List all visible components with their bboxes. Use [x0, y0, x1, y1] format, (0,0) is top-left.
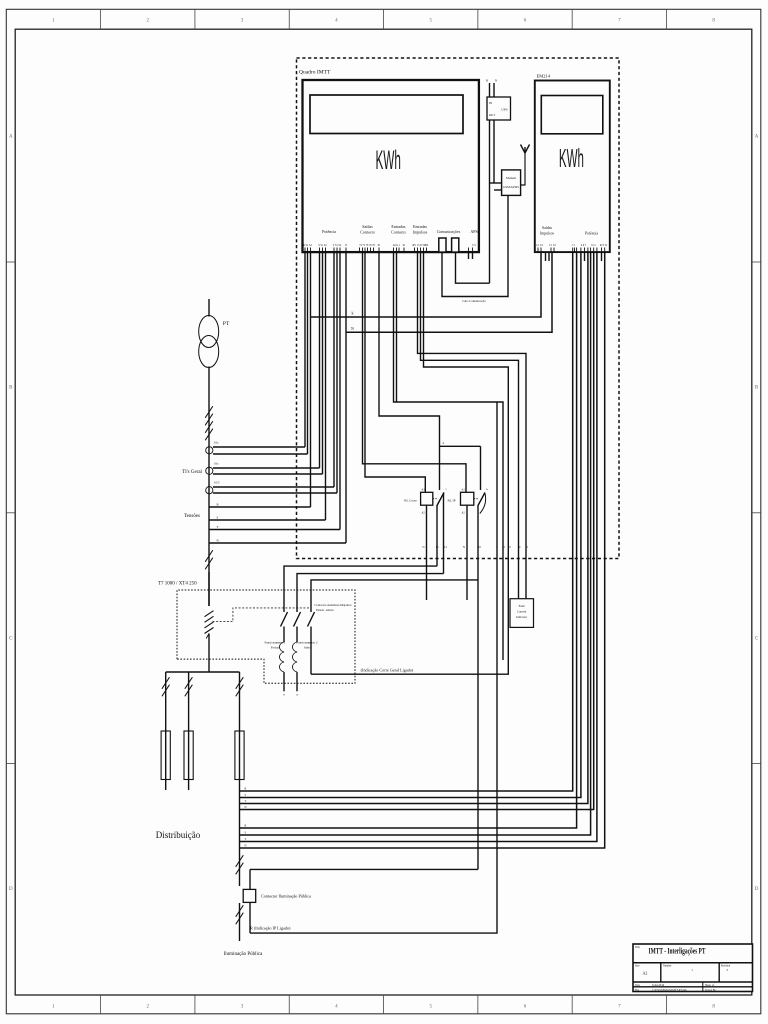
svg-text:R: R: [486, 79, 488, 83]
svg-text:k: k: [352, 311, 354, 316]
svg-text:S: S: [217, 516, 219, 520]
svg-text:A: A: [755, 135, 759, 140]
svg-text:Potência: Potência: [585, 231, 598, 235]
svg-text:R: R: [245, 788, 247, 791]
svg-text:C1 C2: C1 C2: [536, 244, 543, 247]
svg-text:Current: Current: [517, 610, 526, 614]
svg-text:EM214: EM214: [537, 74, 551, 79]
svg-text:Modem: Modem: [506, 176, 516, 180]
svg-text:10a: 10a: [214, 462, 219, 466]
svg-text:Distribuição: Distribuição: [156, 830, 201, 840]
svg-text:Potência: Potência: [322, 229, 336, 234]
svg-text:10a: 10a: [214, 441, 219, 445]
svg-text:(Indicação Corte Geral Ligado): (Indicação Corte Geral Ligado): [361, 668, 414, 673]
svg-text:GSM/GPRS: GSM/GPRS: [503, 185, 519, 189]
svg-text:Contactor Iluminação Pública: Contactor Iluminação Pública: [261, 894, 311, 899]
svg-text:T: T: [245, 800, 247, 803]
svg-text:A: A: [9, 135, 13, 140]
svg-text:A2: A2: [643, 971, 648, 976]
svg-text:Quadro IMTT: Quadro IMTT: [299, 70, 331, 76]
svg-text:T: T: [245, 838, 247, 841]
svg-text:Funcionamento 2: Funcionamento 2: [297, 641, 318, 645]
svg-text:Contacto: Contacto: [360, 230, 374, 235]
svg-text:N: N: [245, 806, 247, 809]
svg-text:Contacto: Contacto: [391, 230, 405, 235]
svg-text:IMTT - Interligações PT: IMTT - Interligações PT: [649, 947, 706, 956]
svg-text:9-Jul-2010: 9-Jul-2010: [652, 984, 665, 987]
svg-text:N: N: [463, 546, 465, 549]
svg-text:Funcionamento 1: Funcionamento 1: [265, 641, 286, 645]
svg-text:T7 1000 / XT4 250: T7 1000 / XT4 250: [158, 582, 197, 587]
svg-text:Cabo Comunicação: Cabo Comunicação: [462, 299, 486, 303]
svg-text:R/T 12: R/T 12: [600, 244, 608, 247]
svg-text:T S1 S2: T S1 S2: [333, 244, 342, 247]
svg-text:N: N: [345, 244, 347, 247]
svg-text:Number: Number: [663, 965, 672, 968]
svg-text:Saídas: Saídas: [362, 224, 373, 229]
svg-text:Iluminação Pública: Iluminação Pública: [224, 952, 264, 957]
svg-text:Fechar: Fechar: [271, 646, 279, 650]
svg-text:Contactos Auxiliares Disjuntor: Contactos Auxiliares Disjuntor: [314, 603, 351, 607]
svg-text:Saídas: Saídas: [542, 226, 552, 230]
svg-text:Impulsos: Impulsos: [540, 231, 554, 235]
svg-text:Sheet of: Sheet of: [705, 984, 714, 987]
svg-text:KWh: KWh: [559, 143, 584, 173]
svg-text:D: D: [755, 887, 759, 892]
svg-text:D: D: [9, 887, 13, 892]
svg-text:Fault: Fault: [519, 604, 525, 608]
svg-text:Drawn By:: Drawn By:: [705, 989, 717, 992]
svg-text:T: T: [217, 525, 219, 529]
svg-text:OUT: OUT: [489, 113, 495, 117]
svg-text:UPS: UPS: [501, 108, 507, 112]
svg-text:N: N: [245, 845, 247, 848]
svg-text:4 6 7: 4 6 7: [581, 244, 587, 247]
svg-text:Entradas: Entradas: [391, 224, 405, 229]
svg-text:10/5: 10/5: [214, 481, 220, 485]
svg-text:N: N: [283, 694, 285, 697]
svg-text:KWh: KWh: [375, 145, 401, 175]
svg-text:TI's Geral: TI's Geral: [182, 470, 203, 475]
svg-text:N: N: [351, 326, 354, 331]
svg-text:Impulsos: Impulsos: [413, 230, 428, 235]
svg-text:PT: PT: [223, 321, 230, 327]
svg-text:T S: T S: [472, 244, 476, 247]
svg-text:C:\ESQUEMAS\IMTT-PT.ddb: C:\ESQUEMAS\IMTT-PT.ddb: [652, 989, 687, 992]
svg-text:Comunicações: Comunicações: [437, 229, 461, 234]
svg-text:N: N: [422, 546, 424, 549]
svg-text:Entradas: Entradas: [413, 224, 427, 229]
svg-text:S S1 S2: S S1 S2: [318, 244, 327, 247]
svg-text:2s: 2s: [486, 488, 488, 491]
svg-text:Indicator: Indicator: [516, 615, 527, 619]
svg-text:APS: APS: [470, 229, 477, 234]
svg-text:R: R: [245, 825, 247, 828]
svg-text:Tensões: Tensões: [184, 514, 200, 519]
svg-text:Abrir: Abrir: [304, 646, 311, 650]
svg-text:C1 C2: C1 C2: [549, 244, 556, 247]
svg-text:R (Indicação IP Ligado): R (Indicação IP Ligado): [250, 926, 291, 931]
svg-text:Date: Date: [635, 984, 641, 987]
svg-text:74 75 76 78 79: 74 75 76 78 79: [359, 244, 375, 247]
svg-text:R S1 S2: R S1 S2: [303, 244, 312, 247]
svg-text:ACG 1: ACG 1: [393, 244, 401, 247]
svg-text:RL IP: RL IP: [447, 499, 455, 503]
svg-text:RL Corte: RL Corte: [404, 499, 417, 503]
svg-text:9 11: 9 11: [591, 244, 596, 247]
svg-text:Estado Aberto: Estado Aberto: [316, 608, 334, 612]
svg-text:Title: Title: [635, 946, 641, 949]
